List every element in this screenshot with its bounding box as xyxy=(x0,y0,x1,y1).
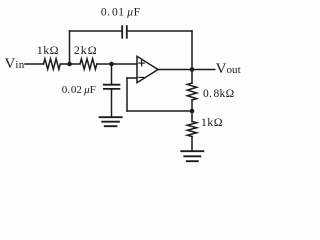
wire R4 to ground xyxy=(191,137,193,152)
wire top rail drop to output node xyxy=(191,31,193,70)
node A junction dot xyxy=(67,62,72,67)
wire top feedback rail right of C1 xyxy=(127,30,192,32)
wire op-amp output to output node xyxy=(158,69,192,71)
svg-text:Vin: Vin xyxy=(5,56,25,72)
svg-text:0. 02 μF: 0. 02 μF xyxy=(62,84,96,96)
wire R1 to node A xyxy=(60,63,80,65)
wire C2 to ground xyxy=(111,89,113,117)
wire node B to op-amp noninverting input xyxy=(112,63,138,65)
wire inverting input stub xyxy=(127,77,137,79)
wire inverting feedback vertical xyxy=(126,78,128,111)
divider node junction dot xyxy=(190,109,195,114)
svg-text:Vout: Vout xyxy=(216,61,241,77)
svg-text:0. 01 μF: 0. 01 μF xyxy=(101,7,141,19)
wire R3 to divider node xyxy=(191,100,193,111)
svg-text:2kΩ: 2kΩ xyxy=(74,43,98,57)
svg-text:1kΩ: 1kΩ xyxy=(37,43,59,57)
resistor 2kΩ (series) xyxy=(80,59,97,69)
svg-text:0. 8kΩ: 0. 8kΩ xyxy=(203,88,234,100)
capacitor 0.01uF C1 xyxy=(122,26,127,38)
output node junction dot xyxy=(190,67,195,72)
resistor 1kΩ (series input) xyxy=(44,59,61,69)
wire output node down to R3 xyxy=(191,70,193,84)
op-amp minus input mark xyxy=(139,76,144,78)
wire Vin to R1 xyxy=(25,63,44,65)
node B junction dot xyxy=(109,62,114,67)
resistor 0.8kΩ (feedback divider upper) xyxy=(187,83,196,100)
wire node A riser to top feedback rail xyxy=(69,31,71,64)
wire inverting feedback horizontal to divider node xyxy=(127,110,192,112)
capacitor 0.02uF C2 xyxy=(104,85,120,89)
wire top feedback rail left of C1 xyxy=(70,30,123,32)
svg-text:1kΩ: 1kΩ xyxy=(201,115,223,129)
resistor 1kΩ (divider lower) xyxy=(187,122,196,137)
ground (below C2) xyxy=(100,117,122,126)
ground (below R4) xyxy=(181,151,203,161)
wire R2 to node B xyxy=(97,63,112,65)
wire divider node to R4 xyxy=(191,111,193,122)
wire node B down to C2 xyxy=(111,64,113,85)
wire output node to Vout xyxy=(192,69,215,71)
op-amp plus input mark xyxy=(139,60,144,65)
op-amp U1 xyxy=(137,56,158,82)
